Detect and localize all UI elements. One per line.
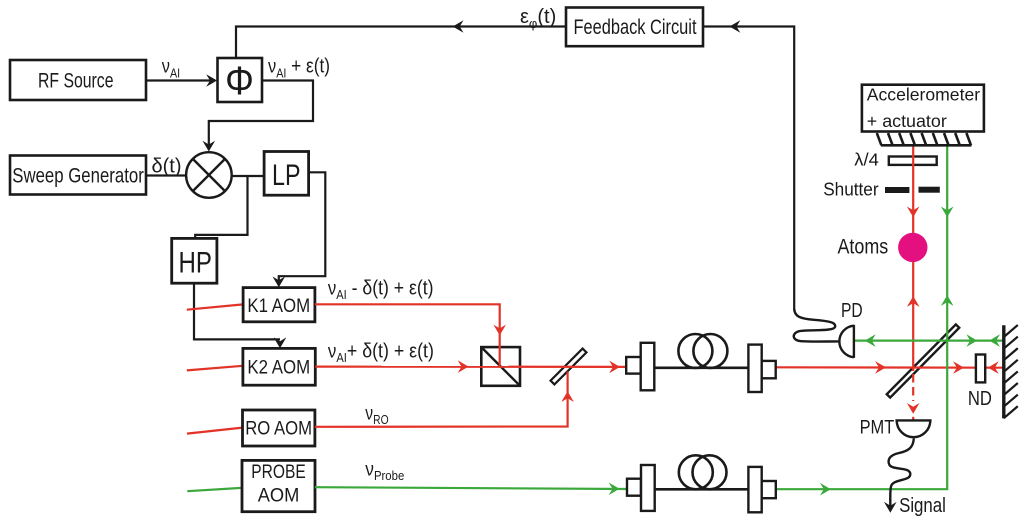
beamsplitter plate body <box>887 324 959 397</box>
svg-text:Sweep Generator: Sweep Generator <box>12 164 144 187</box>
actuator mirror hatching <box>877 133 972 145</box>
red beam into K1 AOM <box>187 304 243 309</box>
svg-text:Φ: Φ <box>225 59 254 103</box>
label nu_AI + eps(t) <box>268 54 330 80</box>
wire LP to K1 AOM <box>273 172 326 287</box>
svg-text:RO AOM: RO AOM <box>245 419 312 440</box>
box Feedback Circuit <box>566 8 703 47</box>
svg-text:+ actuator: + actuator <box>867 111 947 131</box>
green beam horizontal to PD <box>854 334 1003 347</box>
svg-text:HP: HP <box>179 247 212 280</box>
green beam into PROBE AOM <box>187 488 241 491</box>
box RO AOM <box>243 410 315 446</box>
quarter waveplate lambda/4 <box>889 157 937 165</box>
label nu_AI - delta(t) + eps(t) <box>328 276 434 302</box>
photodiode PD <box>839 325 854 358</box>
photomultiplier PMT <box>895 420 931 437</box>
fiber coupler left (top path) <box>626 343 654 391</box>
red beam into K2 AOM <box>187 366 243 371</box>
phase modulator PHI U1 <box>218 58 263 103</box>
wire RF Source to phase modulator <box>146 74 217 87</box>
svg-text:RF Source: RF Source <box>38 70 114 93</box>
svg-text:λ/4: λ/4 <box>854 150 879 170</box>
svg-text:εφ(t): εφ(t) <box>520 6 556 31</box>
retro mirror line <box>1002 325 1005 418</box>
svg-text:Feedback Circuit: Feedback Circuit <box>574 16 697 39</box>
cable PD to feedback wire <box>794 309 839 342</box>
mixer <box>186 152 232 198</box>
green beam fiber to vertical riser <box>776 145 954 495</box>
wire feedback circuit to phase modulator <box>236 20 566 58</box>
red beam into RO AOM <box>187 428 243 434</box>
red beam RO AOM output <box>315 372 574 427</box>
label nu_Probe <box>365 459 404 483</box>
svg-text:Shutter: Shutter <box>823 179 878 199</box>
box RF Source <box>10 60 146 100</box>
red beam K2 AOM output to fiber coupler <box>315 360 626 373</box>
svg-text:K1 AOM: K1 AOM <box>247 296 310 317</box>
fiber line (top path) <box>654 366 748 369</box>
fiber loop (top path) <box>678 334 727 368</box>
red beam vertical to atoms <box>907 145 920 371</box>
svg-text:δ(t): δ(t) <box>152 156 182 178</box>
svg-text:K2 AOM: K2 AOM <box>247 357 310 378</box>
wire sweep generator to mixer <box>146 174 187 176</box>
svg-text:Atoms: Atoms <box>838 236 889 259</box>
svg-text:Accelerometer: Accelerometer <box>867 85 980 105</box>
green beam PROBE AOM output <box>315 483 627 496</box>
box LP filter <box>264 152 309 196</box>
fiber coupler left (bottom path) <box>627 465 655 511</box>
shutter blade left <box>885 187 909 193</box>
shutter blade right <box>919 187 940 193</box>
wire phase modulator to mixer <box>203 81 314 152</box>
svg-text:PMT: PMT <box>860 418 895 439</box>
box HP filter <box>172 238 217 283</box>
cable PMT to signal arrow <box>884 438 914 512</box>
wire mixer to LP filter <box>232 175 264 177</box>
neutral density filter ND <box>976 355 985 383</box>
fiber coupler right (bottom path) <box>748 467 775 512</box>
label nu_RO <box>365 402 388 427</box>
svg-text:PROBE: PROBE <box>251 462 305 483</box>
box Accelerometer + actuator <box>862 85 984 132</box>
box PROBE AOM <box>242 460 315 511</box>
box K2 AOM <box>243 348 315 385</box>
svg-text:AOM: AOM <box>258 486 300 507</box>
wire HP to K2 AOM <box>194 283 286 348</box>
wire junction to HP filter <box>195 176 247 238</box>
red beam fiber to mirror and ND <box>776 361 1003 374</box>
svg-text:LP: LP <box>272 159 301 192</box>
fiber coupler right (top path) <box>748 345 775 392</box>
label nu_AI + delta(t) + eps(t) <box>328 341 434 366</box>
red dashed beam to PMT <box>907 374 920 420</box>
label nu_AI <box>162 55 180 80</box>
fiber line (bottom path) <box>655 488 749 491</box>
box Sweep Generator <box>10 156 146 195</box>
atoms cloud <box>898 233 927 262</box>
svg-text:ND: ND <box>968 388 992 410</box>
box K1 AOM <box>243 288 315 322</box>
retro mirror hatching <box>1004 325 1018 418</box>
fiber loop (bottom path) <box>679 455 727 489</box>
wire PD to Feedback Circuit <box>703 20 794 310</box>
svg-text:Signal: Signal <box>899 495 946 517</box>
red beam K1 AOM output <box>315 304 506 366</box>
beamsplitter cube <box>481 347 520 386</box>
svg-text:PD: PD <box>841 300 863 322</box>
mirror M1 body <box>551 349 587 385</box>
